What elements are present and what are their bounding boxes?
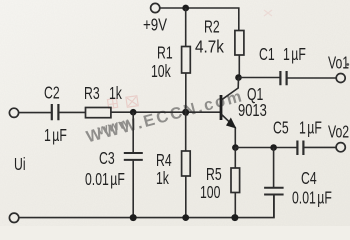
terminal: output Vo1 (328, 53, 349, 82)
resistor R4 (156, 112, 190, 217)
wire: bottom rail (19, 195, 274, 218)
node: R4 ground junction (182, 214, 189, 221)
resistor R3 (84, 84, 122, 118)
svg-text:C2: C2 (44, 83, 60, 103)
resistor R5 (200, 148, 240, 218)
transistor Q1 9013 (221, 78, 267, 148)
svg-text:1µF: 1µF (44, 126, 67, 146)
svg-text:Vo2: Vo2 (328, 122, 349, 142)
svg-text:1k: 1k (156, 169, 169, 189)
svg-text:R5: R5 (206, 165, 222, 185)
node: base node (R1/R4/base) (182, 109, 189, 116)
svg-text:1µF: 1µF (299, 118, 322, 138)
svg-text:R3: R3 (84, 84, 100, 104)
svg-text:100: 100 (200, 183, 220, 203)
wire: emitter rail (235, 147, 297, 149)
watermark (84, 10, 272, 146)
svg-text:C1: C1 (259, 45, 275, 65)
wire: input top lead (19, 112, 51, 114)
svg-text:9013: 9013 (238, 101, 267, 121)
svg-text:10k: 10k (151, 62, 171, 82)
svg-text:1k: 1k (109, 84, 122, 104)
terminal: input Ui top (9, 108, 18, 117)
node: R3/C3 junction (130, 109, 137, 116)
node: emitter node (232, 144, 239, 151)
svg-text:C4: C4 (301, 169, 317, 189)
svg-text:+9V: +9V (143, 16, 167, 35)
svg-text:C3: C3 (99, 149, 115, 169)
capacitor C5 (273, 118, 336, 155)
wire: R3 to base node to transistor base (111, 111, 221, 113)
capacitor C1 (239, 45, 337, 85)
resistor R1 (151, 8, 190, 112)
node: C3 ground junction (130, 214, 137, 221)
svg-text:1µF: 1µF (283, 45, 306, 65)
wire: top rail (160, 8, 239, 31)
capacitor C4 (264, 148, 332, 218)
svg-text:0.01µF: 0.01µF (85, 170, 125, 190)
node: top rail / R1 junction (182, 5, 189, 12)
terminal: output Vo2 (328, 122, 349, 152)
terminal: +9V supply (143, 3, 167, 35)
resistor R2 (195, 17, 244, 77)
node: collector node (235, 74, 242, 81)
svg-text:4.7k: 4.7k (195, 36, 224, 56)
svg-text:R1: R1 (157, 43, 173, 63)
svg-text:Vo1: Vo1 (328, 53, 349, 73)
wire C2 to R3 (58, 111, 85, 113)
svg-text:Ui: Ui (14, 155, 26, 175)
svg-text:0.01µF: 0.01µF (292, 188, 332, 208)
svg-text:R4: R4 (156, 151, 172, 171)
terminal: input Ui bottom (9, 213, 18, 222)
capacitor C3 (85, 112, 143, 217)
node: C4/C5 junction (270, 144, 277, 151)
capacitor C2 (44, 83, 67, 145)
node: R5 ground junction (231, 214, 238, 221)
svg-text:C5: C5 (273, 118, 289, 138)
svg-text:R2: R2 (204, 17, 220, 37)
